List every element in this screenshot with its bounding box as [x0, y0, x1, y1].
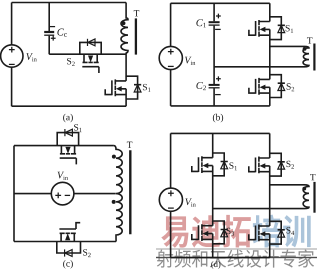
label T (a) — [134, 10, 139, 16]
watermark line 1 — [161, 216, 188, 247]
label Vin — [58, 172, 65, 179]
transistor S1 (d) — [192, 133, 228, 175]
capacitor C2 — [213, 66, 215, 106]
voltage source Vin (a) — [1, 45, 23, 67]
core (b) — [313, 44, 315, 71]
label S1 — [74, 124, 78, 130]
label S3 — [226, 228, 230, 234]
wire: left rail (c) — [13, 146, 15, 242]
label S2 — [83, 249, 87, 255]
transistor S2 (c) — [59, 223, 80, 242]
transformer T primary (b) — [214, 46, 309, 66]
transistor S3 (d) — [192, 221, 228, 258]
label (a) — [63, 114, 65, 123]
wire: left rail (d) — [170, 133, 172, 257]
phase dot lower (c) — [112, 200, 116, 204]
transistor S2 (a) — [82, 54, 99, 73]
wire: left rail (b) — [170, 3, 172, 106]
label (c) — [63, 260, 65, 269]
label C1 — [196, 19, 203, 26]
label S1 — [229, 162, 233, 168]
label S4 — [286, 227, 290, 233]
wire: transformer bottom lead (d) — [213, 208, 270, 210]
wire: bottom bus (b) — [171, 105, 270, 107]
label T (d) — [310, 174, 315, 180]
phase dot (d) — [302, 187, 306, 191]
transistor S2 (b) — [249, 75, 285, 106]
label Vin — [185, 57, 192, 64]
transistor S4 (d) — [249, 221, 285, 257]
label S2 — [67, 58, 71, 64]
wire: top bus (d) — [171, 132, 270, 134]
transformer T primary (d) — [270, 185, 309, 209]
wire: bottom bus (a) — [12, 105, 127, 107]
capacitor Cc — [48, 3, 50, 55]
transformer T center-tapped primary (c) — [114, 146, 123, 242]
watermark strike line — [156, 257, 317, 258]
wire: top bus (c) — [14, 145, 114, 147]
transistor S2 (d) — [249, 133, 285, 176]
label S1 — [143, 84, 147, 90]
label (b) — [213, 114, 215, 123]
core (c) — [129, 150, 131, 234]
transistor S1 (b) — [249, 3, 285, 39]
wire: mid wire (c) — [14, 193, 116, 195]
label C2 — [196, 82, 203, 89]
wire: midpoint rail (b) — [269, 39, 271, 75]
voltage source Vin (c) — [51, 182, 74, 205]
label T (b) — [307, 37, 312, 43]
wire: bottom bus (c) — [14, 241, 116, 243]
phase dot (a) — [122, 21, 126, 25]
wire: right midpoint rail (d) — [269, 176, 271, 222]
label S2 — [286, 161, 290, 167]
label Vin — [26, 53, 33, 60]
wire: left rail (a) — [11, 3, 13, 107]
diode of S2 (c) — [57, 242, 81, 254]
core (d) — [313, 182, 315, 213]
wire: winding to S1 (a) — [125, 54, 127, 77]
label Vin — [185, 198, 192, 205]
label T (c) — [127, 142, 132, 148]
label S1 — [286, 25, 290, 31]
transistor S1 (a) — [105, 76, 141, 106]
capacitor C1 — [213, 3, 215, 66]
watermark divider line — [156, 248, 317, 250]
label (d) — [211, 261, 213, 269]
wire: top bus (b) — [171, 2, 270, 4]
voltage source Vin (b) — [159, 46, 182, 69]
diode of S1 (c) — [57, 133, 78, 146]
wire: Cc to S2 (a) — [49, 53, 126, 55]
label Cc — [57, 29, 64, 36]
transistor S1 (c) — [60, 146, 77, 165]
voltage source Vin (d) — [159, 188, 182, 211]
diode of S2 (a) — [80, 42, 101, 54]
wire: bottom bus (d) — [171, 257, 270, 259]
wire: left midpoint rail (d) — [212, 176, 214, 222]
core (a) — [135, 18, 137, 54]
label S2 — [287, 83, 291, 89]
phase dot upper (c) — [112, 155, 116, 159]
wire: top bus (a) — [12, 2, 127, 4]
phase dot (b) — [303, 47, 307, 51]
watermark line 2 — [157, 250, 173, 268]
transformer T primary (a) — [121, 3, 128, 55]
